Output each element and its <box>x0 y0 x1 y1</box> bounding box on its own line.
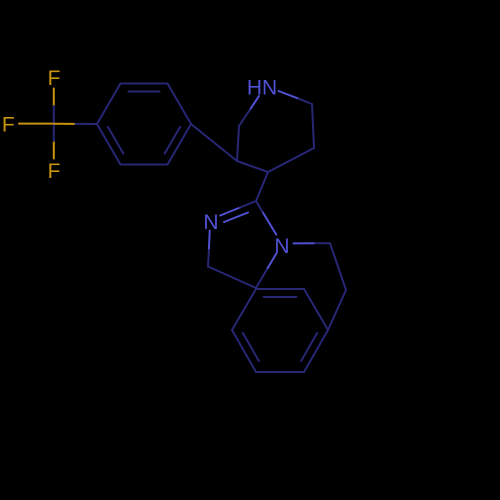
wire bond N1-CH2a blue half <box>294 242 316 244</box>
wire bond C5'-C6' <box>237 126 239 161</box>
wire bond N1-CH2a dark half <box>315 242 330 244</box>
wire bond C2'-C3' <box>312 104 314 148</box>
wire ring B inner double top <box>264 296 297 298</box>
wire bond C6'-N1' blue half <box>251 96 259 108</box>
wire bond C4-C5 <box>208 267 256 289</box>
wire ring B inner double left-bottom <box>243 333 259 361</box>
wire bond N3-C4 blue half <box>208 231 211 250</box>
node ring A benzene edges <box>97 84 191 165</box>
svg-text:F: F <box>48 67 61 90</box>
wire bond N1'-C2' dark half <box>299 99 312 104</box>
wire CF3 bond C-Fbot <box>53 141 55 159</box>
wire bond C2=N3 inner line <box>224 213 248 223</box>
wire bond CH2a-CH2b <box>330 243 346 290</box>
svg-text:HN: HN <box>247 77 277 100</box>
wire bond N1-C2 blue half <box>262 212 276 235</box>
wire bond CF3-C to ring A (gold half) <box>54 123 76 125</box>
wire bond ring A to C5' <box>191 124 237 161</box>
svg-text:F: F <box>2 114 15 137</box>
wire bond C2=N3 main blue half <box>220 208 240 216</box>
wire bond C3'-C4' <box>268 148 314 172</box>
wire ring A inner double right-bottom <box>165 127 181 154</box>
wire ring A inner double left-bottom <box>108 127 124 154</box>
svg-text:N: N <box>274 235 289 258</box>
wire bond C6'-N1' dark half <box>239 109 251 127</box>
wire CF3 bond C-Fleft <box>19 123 54 125</box>
node ring B benzene edges <box>232 289 328 372</box>
wire bond C4' to imidazoline C2 <box>256 172 268 201</box>
wire ring A inner double top <box>129 91 160 93</box>
wire bond C2=N3 main dark half <box>240 201 256 208</box>
wire bond N1-C2 dark half <box>256 201 262 212</box>
wire CF3 bond C-Ftop <box>53 89 55 107</box>
wire bond CH2b-ipso ringB <box>328 290 346 330</box>
svg-text:F: F <box>48 160 61 183</box>
wire ring B inner double right-bottom <box>301 333 317 361</box>
wire bond C5-N1 blue half <box>268 253 277 268</box>
svg-text:N: N <box>203 211 218 234</box>
wire bond N3-C4 dark half <box>207 250 210 267</box>
wire bond C5-N1 dark half <box>256 268 268 288</box>
wire bond C4'-C5' <box>237 161 268 172</box>
wire bond N1'-C2' blue half <box>279 91 299 99</box>
wire bond CF3-C to ring A (dark half) <box>75 123 97 125</box>
